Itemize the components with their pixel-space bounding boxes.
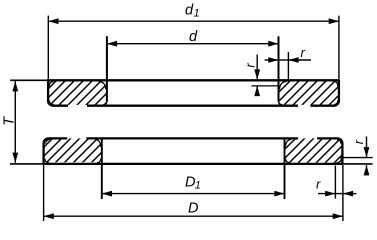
washer 1 right OD edge with rounded bottom corner: [310, 80, 339, 105]
dimension d1 right arrowhead: [329, 18, 339, 24]
svg-text:D: D: [188, 200, 198, 216]
washer 2 bottom face left extension (T): [10, 163, 44, 165]
dimension r (bottom) right arrow outside: [343, 193, 357, 195]
washer 2 bore top-left large fillet arc: [95, 140, 100, 147]
washer 2 OD top-left inner fillet arc: [46, 140, 50, 144]
dimension d left arrowhead: [107, 41, 117, 47]
washer 2 right OD edge: [341, 143, 343, 164]
dimension r (bottom right, vertical) lower arrow: [366, 165, 368, 175]
washer 2 right bore edge (D1 extension below): [284, 139, 286, 199]
dimension D extension line left: [43, 165, 45, 221]
washer 1 hatched section right block: [279, 81, 340, 105]
washer 2 left OD edge: [42, 143, 44, 164]
dimension r (top, vertical) upper arrow: [256, 55, 258, 80]
washer 2 (bottom, housing washer) hatched section left block: [44, 138, 102, 162]
washer 2 bore top-right large fillet arc: [286, 140, 291, 147]
dimension D left arrowhead: [44, 213, 54, 219]
washer 2 bore bottom-left small fillet arc: [97, 159, 101, 163]
washer 1 left bore bottom fillet arc: [103, 101, 107, 105]
washer 1 OD bottom-left inner fillet arc: [49, 100, 53, 104]
svg-text:r: r: [301, 45, 306, 60]
svg-text:1: 1: [194, 8, 200, 20]
dimension D extension line right: [342, 165, 344, 221]
dimension D1 right arrowhead: [274, 191, 284, 197]
washer 2 OD bottom-right inner fillet arc r: [336, 158, 341, 163]
washer 1 bore top-right large fillet arc r: [280, 82, 287, 90]
dimension r (top, vertical) thin line at fillet depth: [252, 85, 279, 87]
dimension r (bottom right, vertical) upper arrow: [366, 137, 368, 158]
washer 2 bore bottom-right small fillet arc: [286, 159, 290, 163]
washer 2 left bore edge (D1 extension below): [101, 139, 103, 199]
washer 2 bottom face right extension (r): [342, 163, 373, 165]
dimension d1 extension line left: [47, 16, 49, 79]
svg-text:d: d: [189, 29, 198, 45]
dimension d line: [107, 43, 279, 45]
washer 1 top face (with left extension line for T): [10, 79, 48, 81]
svg-text:1: 1: [195, 180, 201, 192]
washer 2 hatched section right block: [285, 138, 343, 162]
dimension d1 line: [48, 20, 339, 22]
dimension T line with arrows: [14, 81, 16, 163]
washer 1 left bore edge (d extension above): [106, 36, 108, 101]
svg-text:r: r: [316, 177, 321, 192]
washer 2 OD top-right inner fillet arc: [337, 140, 341, 144]
dimension D line: [44, 215, 343, 217]
washer 1 right bore bottom fillet arc: [279, 101, 283, 105]
dimension r (top, vertical) lower arrow: [256, 86, 258, 94]
washer 2 bottom face: [44, 163, 343, 165]
washer 2 top face left segment with rounded top-left OD corner: [44, 138, 68, 143]
dimension r (bottom) left arrow outside: [318, 193, 335, 195]
dimension r (top) right arrow outside: [288, 59, 311, 61]
washer 1 right bore edge (d extension above): [278, 36, 280, 101]
svg-text:T: T: [2, 116, 18, 126]
dimension D1 line: [102, 193, 285, 195]
dimension r (top, horizontal) extension line: [287, 52, 289, 80]
washer 1 left OD edge with rounded bottom corner: [48, 80, 68, 105]
washer 1 OD bottom-right inner fillet arc: [334, 100, 338, 104]
washer 2 top face middle segment: [86, 137, 298, 139]
washer 1 (top, shaft washer) hatched section left block: [48, 81, 107, 105]
dimension D1 left arrowhead: [102, 191, 112, 197]
dimension r (bottom, horizontal) extension line: [334, 166, 336, 199]
dimension r (top) line between extensions: [279, 59, 289, 61]
dimension r (bottom) line between extensions: [335, 193, 343, 195]
washer 1 OD top-left inner fillet arc: [49, 82, 53, 87]
washer 2 fillet-top extension line right (r): [340, 157, 373, 159]
dimension d1 extension line right: [338, 16, 340, 79]
washer 1 bottom face middle segment: [87, 105, 298, 107]
washer 1 bore top-left large fillet arc r: [99, 82, 106, 90]
dimension d1 left arrowhead: [48, 18, 58, 24]
svg-text:r: r: [351, 139, 366, 144]
dimension D right arrowhead: [333, 213, 343, 219]
svg-text:r: r: [242, 63, 257, 68]
washer 2 top face right segment with rounded top-right OD corner: [317, 138, 342, 143]
washer 1 OD top-right inner fillet arc: [334, 82, 337, 87]
dimension r (top) left arrow outside: [265, 59, 279, 61]
washer 2 OD bottom-left inner fillet arc: [45, 159, 49, 163]
dimension d right arrowhead: [268, 41, 278, 47]
